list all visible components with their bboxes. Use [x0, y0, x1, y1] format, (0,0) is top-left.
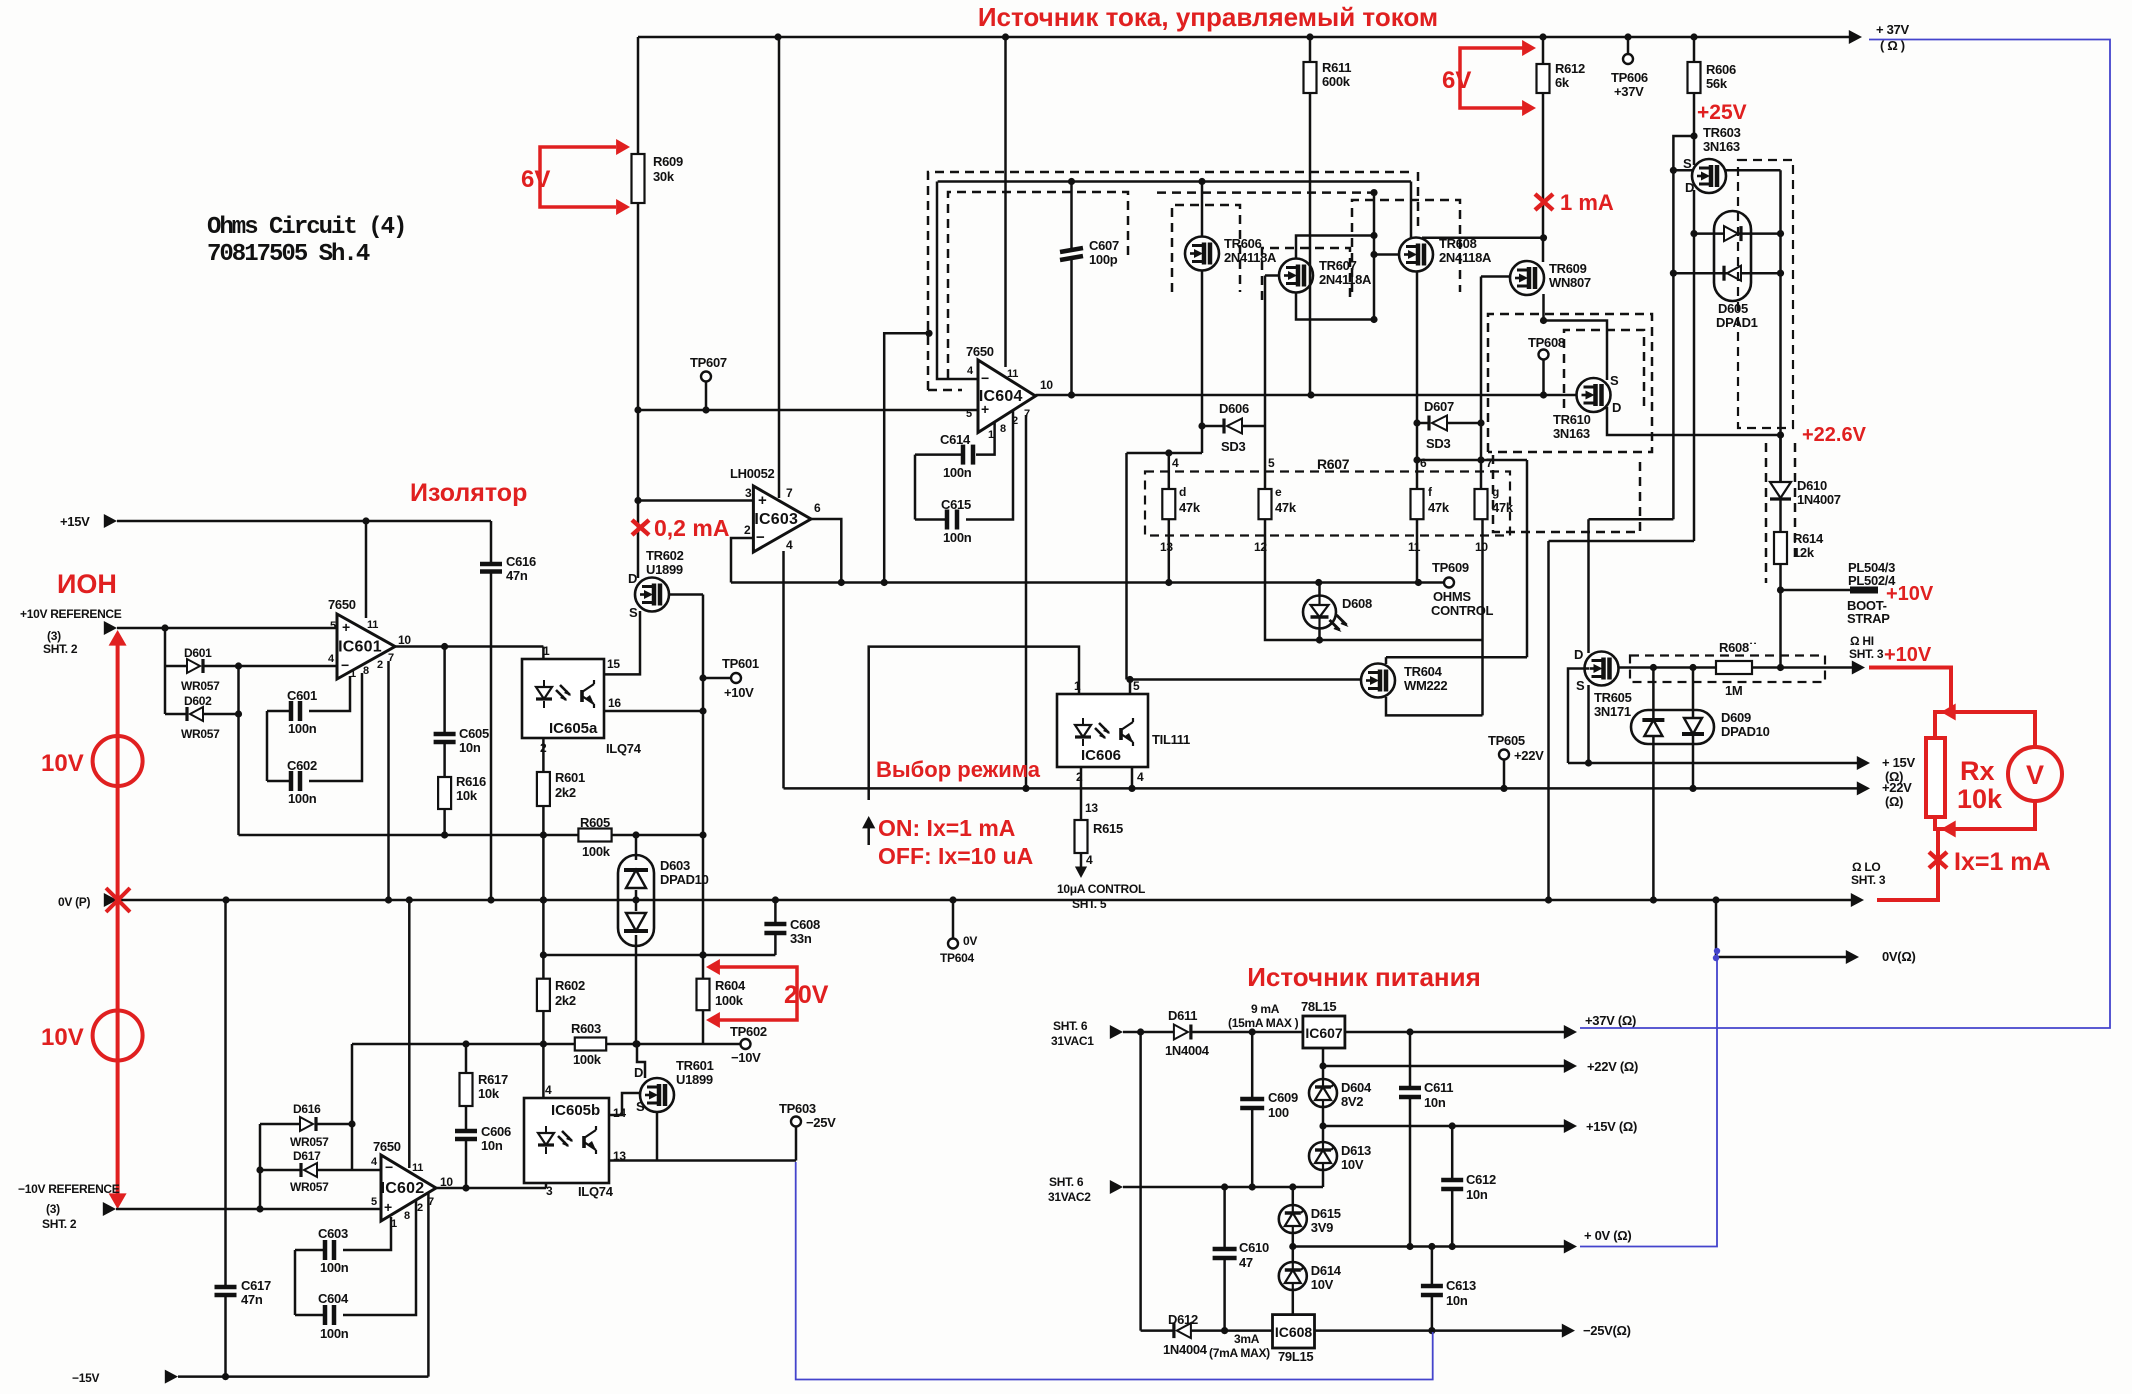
svg-text:R607: R607 [1317, 456, 1350, 472]
node D605 top junction [1690, 230, 1697, 237]
svg-text:10V: 10V [41, 1024, 84, 1051]
node x543 junctions [540, 896, 547, 903]
svg-text:6V: 6V [521, 166, 550, 193]
node D605 right junctions [1777, 230, 1784, 237]
svg-text:Ohms Circuit (4): Ohms Circuit (4) [207, 214, 405, 241]
capacitor C605 [443, 647, 446, 735]
svg-text:100n: 100n [943, 465, 972, 480]
dashed box TR609 TR610 outer [1488, 314, 1652, 452]
node top rail junctions [774, 33, 781, 40]
wire IC603 pin7 to +37V rail [778, 37, 781, 498]
svg-text:47k: 47k [1275, 500, 1297, 515]
optocoupler IC606 [1057, 694, 1148, 767]
svg-text:100n: 100n [943, 530, 972, 545]
svg-text:TP608: TP608 [1528, 335, 1565, 350]
svg-text:S: S [1683, 156, 1692, 171]
wire TR605 drain column [1587, 519, 1590, 653]
dashed box TR606 [1172, 205, 1240, 292]
wire R606 to TR603 [1693, 93, 1696, 160]
svg-text:4: 4 [371, 1156, 378, 1168]
svg-text:−: − [981, 370, 989, 386]
node R609 column junctions [634, 406, 641, 413]
svg-text:TP607: TP607 [690, 355, 727, 370]
connector bootstrap bar [1850, 587, 1878, 594]
wire gate bias rail1 [938, 180, 1411, 183]
wire IC602 pin11 to 0V [408, 900, 411, 1168]
resistor R609 [632, 154, 645, 203]
svg-text:SHT. 2: SHT. 2 [42, 1217, 77, 1231]
svg-text:100n: 100n [320, 1326, 349, 1341]
svg-text:R612: R612 [1555, 61, 1585, 76]
node TR604 gate junction [1126, 676, 1133, 683]
wire +0V PS rail [1293, 1245, 1571, 1248]
svg-text:SHT. 5: SHT. 5 [1072, 897, 1107, 911]
svg-text:6k: 6k [1555, 75, 1570, 90]
node +15V PS junction [1319, 1122, 1326, 1129]
svg-text:13: 13 [1160, 540, 1173, 554]
wire TR605 left lead to +15V [1568, 669, 1589, 764]
svg-text:TIL111: TIL111 [1152, 732, 1190, 747]
svg-text:R611: R611 [1322, 60, 1351, 75]
dashed box TR608 [1352, 200, 1460, 292]
capacitor C602 [267, 780, 291, 783]
transistor TR603 [1692, 159, 1726, 193]
svg-text:6: 6 [1420, 456, 1427, 470]
wire R601 to 0V and R602 [542, 806, 545, 979]
svg-text:WR057: WR057 [181, 679, 220, 693]
resistor R607g [1475, 489, 1488, 519]
wire R615 to control arrow [1080, 853, 1083, 872]
wire R602 to pin4 IC605b [542, 1011, 545, 1098]
svg-text:10: 10 [398, 633, 411, 647]
resistor R603 [575, 1038, 606, 1051]
testpoint TP606 [1627, 37, 1630, 54]
wire y1044 line [352, 1043, 575, 1046]
wire -15V line [165, 1370, 178, 1384]
svg-text:+: + [758, 492, 767, 509]
svg-text:100p: 100p [1089, 252, 1118, 267]
svg-text:C602: C602 [287, 758, 317, 773]
wire y519 link [1589, 518, 1674, 521]
svg-text:TP605: TP605 [1488, 733, 1525, 748]
svg-text:D: D [1685, 180, 1694, 195]
node 0V junctions [222, 896, 229, 903]
svg-text:47k: 47k [1492, 500, 1514, 515]
svg-text:D615: D615 [1311, 1206, 1341, 1221]
wire ohm hi line [1618, 666, 1716, 669]
svg-text:−10V REFERENCE: −10V REFERENCE [18, 1182, 120, 1196]
svg-text:ILQ74: ILQ74 [606, 741, 642, 756]
svg-text:TR601: TR601 [676, 1058, 714, 1073]
wire IC602 minus link [351, 1124, 354, 1170]
svg-text:(15mA MAX ): (15mA MAX ) [1228, 1016, 1299, 1030]
svg-text:+: + [342, 619, 350, 635]
testpoint TP604 [952, 900, 955, 939]
svg-text:D602: D602 [184, 694, 212, 708]
wire TR607 top link [1296, 236, 1374, 260]
svg-text:−: − [756, 529, 765, 546]
svg-text:IC602: IC602 [381, 1180, 425, 1197]
svg-text:ILQ74: ILQ74 [578, 1184, 614, 1199]
wire IC604 minus input [937, 182, 978, 380]
wire TR609 source to TR610 [1544, 294, 1608, 380]
svg-text:(3): (3) [47, 629, 61, 643]
node rail1 junctions [1068, 178, 1075, 185]
wire D605 top row [1694, 232, 1781, 235]
svg-text:SHT. 3: SHT. 3 [1851, 873, 1886, 887]
wire TR604 source link [1386, 697, 1483, 715]
svg-text:2N4118A: 2N4118A [1439, 250, 1492, 265]
node y955 junction [699, 951, 706, 958]
node output line junctions [1068, 391, 1075, 398]
svg-text:−: − [385, 1159, 393, 1175]
svg-text:D617: D617 [293, 1149, 321, 1163]
svg-text:C616: C616 [506, 554, 536, 569]
wire pin11 to output rail [1416, 519, 1419, 583]
svg-text:3mA: 3mA [1234, 1332, 1260, 1346]
svg-text:IC601: IC601 [338, 639, 382, 656]
svg-text:4: 4 [786, 538, 793, 552]
svg-text:C603: C603 [318, 1226, 348, 1241]
svg-text:C612: C612 [1466, 1172, 1496, 1187]
svg-text:3: 3 [546, 1184, 553, 1198]
svg-text:WR057: WR057 [181, 727, 220, 741]
diode D613 zener [1322, 1142, 1324, 1170]
wire TR601 drain column [637, 1044, 645, 1078]
dashed box current source outer [928, 172, 1410, 390]
wire ohm hi arrow [1852, 661, 1865, 675]
diode D602 [165, 713, 187, 716]
svg-text:DPAD1: DPAD1 [1716, 315, 1758, 330]
annotation Ix=1mA X [1929, 852, 1947, 868]
svg-text:1N4007: 1N4007 [1797, 492, 1841, 507]
svg-text:R606: R606 [1706, 62, 1736, 77]
svg-text:100k: 100k [715, 993, 744, 1008]
svg-text:4: 4 [1172, 456, 1179, 470]
testpoint TP605 [1503, 759, 1506, 788]
node +22V PS junction [1319, 1062, 1326, 1069]
svg-text:10k: 10k [1957, 784, 2003, 814]
resistor R608 [1716, 661, 1752, 674]
svg-text:D: D [1574, 647, 1583, 662]
svg-text:+10V: +10V [1884, 644, 1932, 666]
annotation blue feedback traces [796, 40, 2110, 1380]
transistor TR610 [1577, 378, 1611, 412]
dashed guard stub to gate bar [1157, 191, 1374, 194]
dashed channel D610 [1765, 443, 1768, 583]
wire IC601 output [395, 645, 543, 648]
svg-text:10n: 10n [459, 740, 481, 755]
wire TR603 drain column [1693, 160, 1696, 165]
wire D609 right column [1692, 668, 1695, 789]
svg-text:100n: 100n [320, 1260, 349, 1275]
svg-text:TR603: TR603 [1703, 125, 1741, 140]
svg-text:e: e [1275, 485, 1282, 499]
node y835 junctions [441, 831, 448, 838]
node D603 centre on 0V [632, 896, 639, 903]
wire x1527 column [1526, 460, 1529, 657]
svg-text:47n: 47n [506, 568, 528, 583]
svg-text:WN807: WN807 [1549, 275, 1591, 290]
svg-text:4: 4 [967, 365, 974, 377]
dashed box TR610 lower [1493, 455, 1640, 532]
svg-text:WM222: WM222 [1404, 678, 1447, 693]
svg-text:1M: 1M [1725, 683, 1742, 698]
resistor R614 [1779, 499, 1782, 532]
wire IC605b pin3 stub [545, 1183, 548, 1188]
wire D609 left column [1652, 668, 1655, 901]
svg-text:−10V: −10V [731, 1050, 761, 1065]
resistor R615 [1075, 820, 1088, 853]
svg-text:C610: C610 [1239, 1240, 1269, 1255]
optocoupler IC605b [524, 1098, 609, 1183]
wire IC606 pin5 stub [1129, 680, 1132, 695]
node D612 C610 junction [1221, 1327, 1228, 1334]
diode D610 [1779, 435, 1782, 482]
wire D615 to 0V rail [1292, 1233, 1295, 1262]
svg-text:C615: C615 [941, 497, 971, 512]
wire x1673 to y519 corner [1672, 273, 1675, 519]
svg-text:D616: D616 [293, 1102, 321, 1116]
svg-text:5: 5 [1268, 456, 1275, 470]
svg-text:R617: R617 [478, 1072, 508, 1087]
wire x1549 column [1547, 541, 1550, 900]
node minus input junction [235, 662, 242, 669]
wire x1126 column to TR604 gate [1125, 453, 1128, 680]
testpoint TP602 [741, 1039, 751, 1049]
svg-text:TP602: TP602 [730, 1024, 767, 1039]
node TR608 column junctions [1413, 419, 1420, 426]
dashed box TR607 [1262, 248, 1350, 300]
svg-text:R601: R601 [555, 770, 585, 785]
svg-text:−25V: −25V [806, 1115, 836, 1130]
wire IC605a pin2 stub [542, 738, 545, 772]
svg-text:3N171: 3N171 [1594, 704, 1631, 719]
wire C603 C604 tie [294, 1250, 297, 1315]
svg-text:U1899: U1899 [646, 562, 683, 577]
wire 31VAC2 input [1110, 1180, 1123, 1194]
svg-text:−15V: −15V [72, 1371, 99, 1385]
wire TR609 gate lead [1481, 275, 1511, 278]
svg-text:11: 11 [412, 1162, 423, 1174]
svg-text:SHT. 3: SHT. 3 [1849, 647, 1884, 661]
svg-text:2: 2 [377, 659, 383, 671]
wire TR607 bottom link [1296, 292, 1374, 320]
wire D616 D617 clamp left column [259, 1124, 262, 1209]
svg-text:WR057: WR057 [290, 1180, 329, 1194]
svg-text:100n: 100n [288, 721, 317, 736]
svg-text:7650: 7650 [373, 1139, 401, 1154]
svg-text:U1899: U1899 [676, 1072, 713, 1087]
node 31VAC2 junctions [1221, 1183, 1228, 1190]
svg-text:(7mA MAX): (7mA MAX) [1209, 1346, 1270, 1360]
svg-text:100k: 100k [582, 844, 611, 859]
wire IC602 pin7 to -15V [427, 1193, 430, 1377]
svg-text:IC608: IC608 [1275, 1324, 1313, 1340]
svg-text:R604: R604 [715, 978, 746, 993]
svg-text:S: S [1576, 678, 1585, 693]
svg-text:D: D [634, 1065, 643, 1080]
svg-text:2k2: 2k2 [555, 785, 576, 800]
diode D604 zener [1322, 1079, 1324, 1107]
diode D611 [1174, 1025, 1188, 1040]
svg-text:D: D [1612, 400, 1621, 415]
wire +22V PS rail [1323, 1065, 1571, 1068]
svg-text:0V (P): 0V (P) [58, 895, 91, 909]
node bootstrap junction [1777, 586, 1784, 593]
wire D612 row [1139, 1032, 1142, 1331]
wire x884 guard column [884, 333, 929, 582]
wire C614 C615 tie [914, 455, 917, 520]
svg-text:TP603: TP603 [779, 1101, 816, 1116]
wire IC603 pin4 to +22V rail corner [782, 551, 785, 788]
svg-text:IC605a: IC605a [549, 720, 598, 737]
svg-text:R609: R609 [653, 154, 683, 169]
svg-text:D605: D605 [1718, 301, 1748, 316]
wire -10V reference input [103, 1202, 116, 1216]
svg-text:4: 4 [1086, 853, 1093, 867]
node IC602 output junction [462, 1184, 469, 1191]
svg-text:5: 5 [330, 620, 336, 632]
svg-text:C614: C614 [940, 432, 971, 447]
svg-text:10n: 10n [1446, 1293, 1468, 1308]
diode D614 zener [1292, 1262, 1294, 1290]
svg-text:5: 5 [371, 1196, 377, 1208]
svg-text:Источник питания: Источник питания [1247, 962, 1481, 992]
svg-text:5: 5 [966, 408, 972, 420]
wire IC602 output [436, 1187, 546, 1190]
svg-text:13: 13 [1085, 801, 1098, 815]
svg-text:TP606: TP606 [1611, 70, 1648, 85]
svg-text:4: 4 [545, 1083, 552, 1097]
resistor R605 [578, 829, 611, 842]
svg-text:100n: 100n [288, 791, 317, 806]
svg-text:7650: 7650 [328, 597, 356, 612]
node x703 junctions [699, 674, 706, 681]
svg-text:33n: 33n [790, 931, 812, 946]
svg-text:31VAC1: 31VAC1 [1051, 1034, 1094, 1048]
svg-text:14: 14 [613, 1106, 626, 1120]
svg-text:5: 5 [1133, 679, 1140, 693]
svg-text:DPAD10: DPAD10 [1721, 724, 1770, 739]
wire 0V omega drop [1716, 900, 1853, 957]
svg-text:Ω LO: Ω LO [1852, 860, 1880, 874]
wire mode select box [869, 647, 1079, 800]
wire IC605a pin1 stub [542, 647, 545, 660]
svg-text:0V: 0V [963, 934, 977, 948]
svg-text:SD3: SD3 [1221, 439, 1245, 454]
svg-text:11: 11 [1408, 540, 1421, 554]
wire +10V reference input [104, 621, 117, 635]
svg-text:10: 10 [1040, 378, 1053, 392]
svg-text:12k: 12k [1793, 545, 1815, 560]
svg-text:0,2 mA: 0,2 mA [654, 515, 729, 541]
wire +15V PS rail [1323, 1125, 1571, 1128]
svg-text:SHT. 6: SHT. 6 [1053, 1019, 1088, 1033]
wire y955 link [543, 954, 775, 957]
wire 31VAC1 input [1110, 1025, 1123, 1039]
svg-text:D603: D603 [660, 858, 690, 873]
wire y453 link [1127, 452, 1203, 455]
wire IC603 plus input [638, 499, 753, 502]
svg-text:D: D [628, 571, 637, 586]
wire IC603 minus feedback [731, 538, 753, 583]
svg-text:8: 8 [404, 1210, 410, 1222]
svg-text:D607: D607 [1424, 399, 1454, 414]
wire TR603 gate row [1725, 169, 1781, 172]
svg-text:2: 2 [417, 1202, 423, 1214]
svg-text:47k: 47k [1428, 500, 1450, 515]
wire TR608 source column [1416, 272, 1419, 490]
svg-text:D612: D612 [1168, 1312, 1198, 1327]
svg-text:C606: C606 [481, 1124, 511, 1139]
annotation x0.2mA [632, 520, 649, 535]
diode D601 [165, 665, 187, 668]
svg-text:TR605: TR605 [1594, 690, 1632, 705]
svg-text:1: 1 [543, 644, 550, 658]
svg-text:70817505 Sh.4: 70817505 Sh.4 [207, 241, 370, 268]
wire D601 D602 clamp left column [164, 628, 167, 714]
wire IC605a pin16 line [604, 710, 703, 713]
capacitor C604 [295, 1314, 325, 1317]
node D607 junctions [1477, 419, 1484, 426]
node ohm hi junctions [1650, 664, 1657, 671]
svg-text:10n: 10n [481, 1138, 503, 1153]
wire TR601 source stub [656, 1112, 659, 1161]
dashed box TR610 inner [1564, 330, 1644, 408]
node IC601 output junction [441, 643, 448, 650]
node TP608 junction x1543 [1540, 317, 1547, 324]
svg-text:R608˙˙: R608˙˙ [1719, 640, 1757, 655]
resistor R612 [1542, 37, 1545, 64]
svg-text:+37V (Ω): +37V (Ω) [1585, 1013, 1636, 1028]
svg-text:Rx: Rx [1960, 756, 1995, 786]
svg-text:C605: C605 [459, 726, 489, 741]
svg-text:−: − [341, 657, 349, 673]
capacitor C617 [224, 900, 227, 1287]
node TR606 D606 junction [1198, 422, 1205, 429]
dashed box IC604 inner [948, 192, 1128, 378]
svg-text:10k: 10k [478, 1086, 500, 1101]
svg-text:IC603: IC603 [754, 511, 798, 528]
capacitor C603 [295, 1249, 325, 1252]
wire IC606 pin4 stub [1131, 767, 1134, 788]
diode D608 LED [1303, 596, 1336, 629]
svg-text:D614: D614 [1311, 1263, 1342, 1278]
wire IC604 plus input line [638, 409, 978, 412]
resistor R606 [1693, 37, 1696, 62]
wire IC604 pin7 to +22V line [1025, 415, 1028, 788]
svg-text:47: 47 [1239, 1255, 1253, 1270]
svg-text:7: 7 [786, 486, 793, 500]
resistor network R607 box [1145, 472, 1510, 536]
svg-text:R616: R616 [456, 774, 486, 789]
diode D605 DPAD1 [1714, 211, 1751, 301]
svg-text:TR610: TR610 [1553, 412, 1591, 427]
svg-text:+15V: +15V [60, 514, 90, 529]
svg-text:SHT. 2: SHT. 2 [43, 642, 78, 656]
svg-text:15: 15 [607, 657, 620, 671]
transistor TR602 [635, 578, 669, 612]
svg-text:C604: C604 [318, 1291, 349, 1306]
optocoupler IC605a [522, 659, 604, 738]
wire TR602 gate column x703 [702, 595, 705, 979]
node -10V ref junction [256, 1205, 263, 1212]
svg-text:20V: 20V [784, 981, 829, 1009]
svg-text:+ 0V (Ω): + 0V (Ω) [1584, 1228, 1631, 1243]
svg-text:8: 8 [1000, 423, 1006, 435]
testpoint TP609 [1444, 578, 1454, 588]
